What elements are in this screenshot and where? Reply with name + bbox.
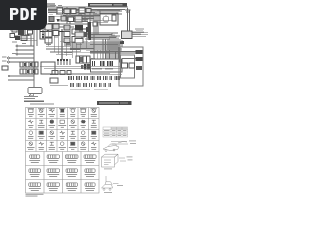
fuse box FB1 — [20, 62, 38, 67]
capacitor C1 — [25, 28, 29, 35]
hanging components row — [57, 59, 70, 65]
parts table text — [104, 130, 127, 136]
dark speck S5 — [57, 19, 60, 22]
legend symbol solenoid — [71, 120, 75, 124]
legend title text — [24, 96, 54, 105]
horn relay U2 — [100, 13, 118, 25]
wire top frame — [47, 6, 129, 8]
legend symbol pump — [39, 131, 43, 134]
wire left links — [14, 36, 37, 41]
legend symbol battery — [29, 109, 33, 112]
controller module M1 — [122, 31, 133, 39]
left cluster dark K1 — [15, 36, 20, 40]
figure labels C — [104, 185, 123, 193]
resistor R3 — [72, 37, 82, 43]
legend connector CN11 — [66, 183, 77, 186]
legend symbol relay — [81, 109, 85, 112]
breaker box left — [50, 78, 58, 83]
legend symbol fuse — [39, 109, 43, 113]
legend symbol buzzer — [81, 120, 86, 123]
legend symbol valve — [81, 142, 85, 146]
wire mid runs — [50, 74, 122, 75]
module M6 — [75, 39, 83, 44]
relay K3 — [68, 17, 74, 22]
callout balloon — [28, 80, 42, 96]
solenoid SOL2 — [136, 57, 143, 61]
wire long runs — [40, 67, 122, 69]
antenna mast — [125, 8, 131, 31]
symbol legend table — [0, 0, 149, 198]
left cluster meter MT1 — [21, 36, 27, 41]
short drops to strip — [94, 50, 118, 59]
breaker CB1 — [2, 66, 8, 70]
terminal T2 — [16, 49, 34, 51]
legend symbol horn — [28, 120, 33, 123]
legend symbol antenna — [39, 142, 44, 145]
legend connector CN9 — [29, 183, 41, 186]
PDF badge — [0, 0, 47, 30]
relay R2 — [71, 9, 76, 14]
wire lines to right edge — [132, 33, 148, 37]
legend symbol ground — [39, 120, 43, 123]
fuse block F1 — [40, 29, 52, 39]
legend symbol sensor — [92, 120, 96, 123]
wire bus middle — [64, 33, 122, 49]
figure machine view C — [102, 176, 119, 190]
wire bus top — [48, 10, 125, 22]
terminal T1 — [16, 45, 34, 47]
wire stub — [50, 84, 68, 86]
note text below table — [26, 194, 44, 197]
sensor SN3 — [35, 25, 38, 29]
legend connector CN10 — [47, 183, 60, 186]
legend symbol coil — [71, 131, 75, 134]
pump P1 — [122, 63, 128, 68]
strip contents dark ticks — [92, 60, 122, 67]
enclosure E1 — [119, 47, 143, 86]
cluster label — [10, 26, 16, 29]
wire fine texture top — [48, 10, 122, 52]
connector CN2 — [49, 17, 54, 22]
legend symbol lamp — [49, 109, 54, 112]
legend connector CN5 — [29, 169, 41, 172]
legend connector CN7 — [66, 169, 77, 172]
lamp L1 — [12, 28, 17, 32]
resistor R4 — [86, 9, 91, 13]
connector labels — [70, 88, 108, 91]
label CB2 — [91, 57, 95, 60]
wire vertical drops top — [67, 7, 100, 35]
legend connector CN12 — [85, 183, 95, 186]
diode block D1 — [79, 8, 85, 13]
fuse box FB2 — [20, 69, 38, 74]
dark module M3 — [88, 22, 92, 40]
terminal strip TS1 — [91, 59, 123, 72]
junction box J1 — [72, 29, 80, 34]
label specks mid — [46, 37, 89, 45]
terminal labels — [2, 53, 17, 62]
left specks — [10, 26, 26, 44]
legend symbol diode — [92, 109, 96, 113]
legend symbol breaker — [92, 131, 96, 134]
wire vertical drops middle — [94, 30, 122, 59]
solenoid SOL3 — [136, 66, 142, 70]
fuse cluster F2 — [45, 24, 59, 43]
legend dark symbols overlay — [40, 109, 96, 145]
legend symbol fan — [60, 131, 65, 134]
terminal T5 — [7, 61, 34, 63]
wire bus dense top — [48, 8, 112, 28]
legend symbol capacitor — [60, 120, 64, 123]
legend symbol led — [60, 142, 64, 146]
solenoid SOL1 — [136, 50, 143, 54]
junction box J2 — [82, 29, 88, 34]
dark module M5 — [84, 32, 87, 37]
wire ground run — [8, 75, 34, 80]
legend connector CN3 — [65, 155, 78, 158]
table header text row — [28, 108, 97, 109]
connector block CB2 — [76, 56, 90, 63]
connector CN3 — [64, 9, 70, 14]
wire left risers — [31, 30, 37, 88]
figure machine view A — [103, 142, 128, 152]
wire verticals lower mid — [48, 30, 86, 58]
battery box B1 — [41, 62, 55, 74]
legend symbol gauge — [29, 131, 33, 135]
legend symbol plug — [81, 131, 85, 135]
legend connector CN4 — [84, 155, 96, 158]
legend symbol heater — [50, 131, 54, 135]
node label block — [47, 3, 55, 6]
junction JB3 — [93, 22, 97, 26]
relay K2 — [61, 16, 66, 21]
switch bank SW3 — [64, 25, 70, 43]
connector bank row1 — [68, 76, 120, 80]
legend symbol resistor — [50, 120, 54, 124]
figure labels A — [129, 141, 136, 144]
legend symbol meter — [29, 142, 33, 146]
label specks top — [49, 5, 97, 16]
legend connector CN2 — [47, 155, 59, 158]
right margin labels — [135, 29, 144, 32]
title banner — [88, 3, 127, 7]
figure cab panel B — [102, 154, 127, 167]
wire to solenoids — [90, 52, 136, 59]
node B dark — [86, 27, 90, 32]
legend symbol speaker — [50, 142, 54, 145]
switch SW2 — [120, 41, 124, 44]
dark cluster PCB1 — [81, 64, 90, 70]
legend symbol motor — [60, 109, 64, 112]
connector CN1 — [57, 8, 63, 14]
strip labels — [92, 68, 113, 71]
small box row left — [52, 71, 71, 75]
label text right — [132, 32, 144, 35]
terminal T4 — [7, 57, 34, 59]
switch SW1 — [18, 30, 24, 35]
left cluster lamp L2 — [10, 34, 15, 38]
terminal T3 — [16, 53, 34, 55]
wire bus lower mid — [46, 47, 94, 55]
sensor SN2 — [28, 30, 33, 34]
wire harness main — [40, 29, 66, 60]
right banner — [97, 101, 132, 105]
pump P2 — [129, 63, 135, 68]
dark module M2 — [75, 25, 83, 31]
module M4 — [75, 32, 84, 37]
parts mini table — [103, 127, 128, 137]
legend connector CN1 — [30, 155, 40, 158]
relay R1 — [75, 16, 82, 22]
sensor SN1 — [29, 26, 32, 29]
connector bank row2 — [70, 83, 111, 87]
legend symbol switch — [71, 109, 75, 113]
legend symbol clock — [91, 142, 96, 145]
legend connector CN6 — [47, 169, 60, 172]
legend symbol thermostat — [71, 142, 75, 145]
figure labels B — [104, 157, 133, 170]
legend connector CN8 — [85, 169, 95, 172]
